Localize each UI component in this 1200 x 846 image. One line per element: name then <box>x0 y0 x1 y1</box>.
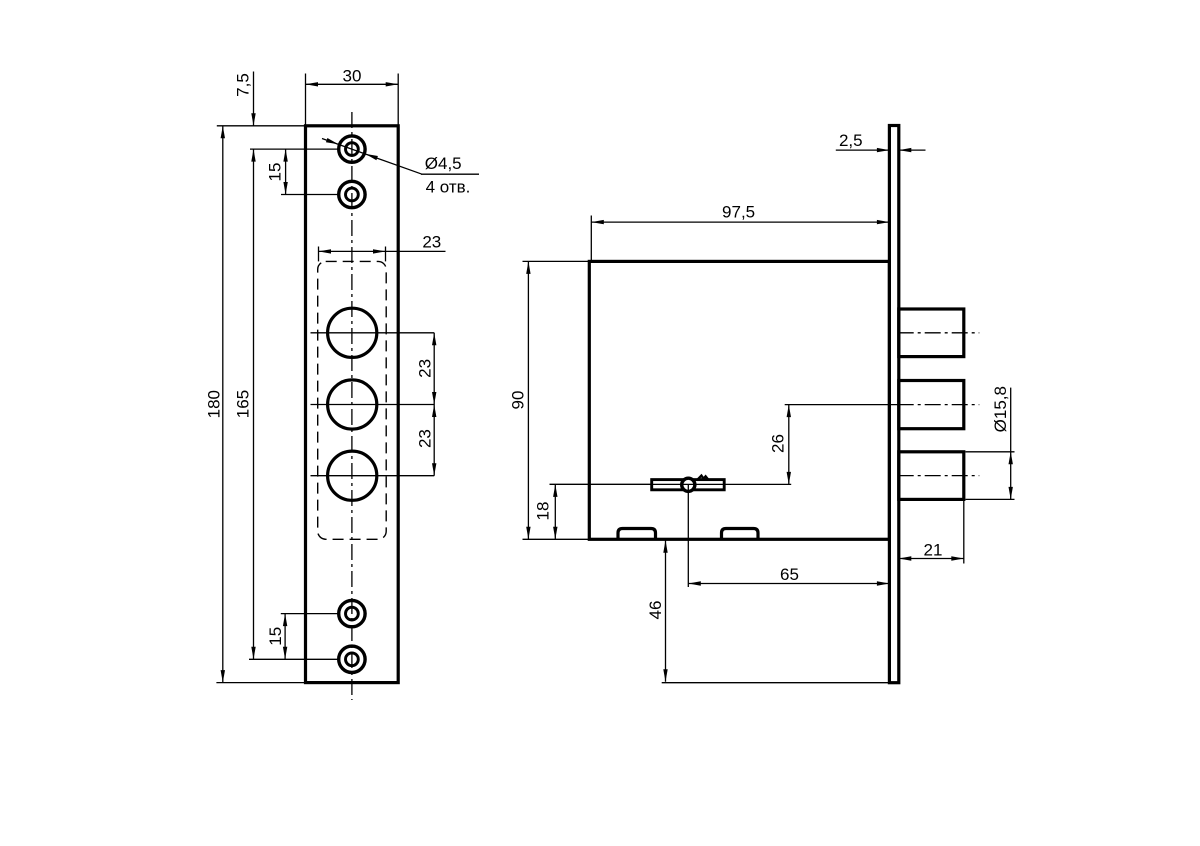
svg-text:90: 90 <box>509 391 528 410</box>
dimension 21 extension line <box>963 499 965 563</box>
dimension 21 (bolt throw) <box>899 541 964 561</box>
faceplate vertical centerline <box>351 112 353 700</box>
bolt hole B3 Ø15,8 <box>328 451 377 500</box>
svg-text:2,5: 2,5 <box>839 131 863 150</box>
dimension 46 extension line <box>662 682 890 684</box>
bolt hole B2 Ø15,8 <box>328 380 377 429</box>
dimension 26 (bolt axis to key axis) <box>768 405 791 485</box>
svg-text:30: 30 <box>343 66 362 85</box>
leader line for hole callout <box>322 138 479 174</box>
dimension 18 extension line <box>550 483 653 485</box>
dimension 180 <box>204 126 225 683</box>
bottom notch 2 <box>722 529 759 540</box>
svg-text:23: 23 <box>422 232 441 251</box>
key cylinder axis horizontal line <box>550 483 792 485</box>
dimension 18 (key axis to bottom) <box>534 484 558 539</box>
svg-text:165: 165 <box>234 390 253 418</box>
dimension 30 extension lines <box>306 74 399 126</box>
key cylinder profile <box>652 476 725 492</box>
faceplate front view outline <box>306 126 399 683</box>
deadbolt 3 side view <box>899 452 964 500</box>
dimension 90 extension lines <box>523 261 590 539</box>
dimension 15 (top screw holes) <box>265 149 287 194</box>
svg-text:97,5: 97,5 <box>722 202 755 221</box>
svg-text:Ø4,5: Ø4,5 <box>425 154 462 173</box>
bolt hole B1 Ø15,8 <box>328 308 377 357</box>
dimension Ø15,8 extension lines <box>966 452 1015 500</box>
svg-text:7,5: 7,5 <box>233 73 252 97</box>
svg-text:26: 26 <box>768 434 787 453</box>
dimension 46 (key axis to plate end) <box>646 540 668 682</box>
screw hole extension lines <box>249 149 338 659</box>
screw hole H2 Ø4,5 countersunk <box>339 181 365 207</box>
svg-text:46: 46 <box>646 601 665 620</box>
dimension 65 (backset) <box>688 565 889 586</box>
svg-text:15: 15 <box>265 163 284 182</box>
svg-text:180: 180 <box>204 390 223 418</box>
svg-text:15: 15 <box>266 627 285 646</box>
screw hole H1 Ø4,5 countersunk <box>339 136 365 162</box>
deadbolt centerlines <box>898 333 980 476</box>
label Ø4,5 4 otv. <box>425 154 471 196</box>
svg-text:18: 18 <box>534 502 553 521</box>
dimension Ø15,8 (deadbolt diameter) <box>991 386 1013 499</box>
svg-text:65: 65 <box>780 565 799 584</box>
deadbolt 1 side view <box>899 309 964 357</box>
dimension 15 (bottom screw holes) <box>266 614 287 660</box>
svg-text:21: 21 <box>924 541 943 560</box>
screw hole H4 Ø4,5 countersunk <box>339 646 365 672</box>
svg-text:Ø15,8: Ø15,8 <box>991 386 1010 432</box>
dimension 90 (body height) <box>509 261 531 539</box>
screw hole H3 Ø4,5 countersunk <box>339 600 365 626</box>
bottom notch 1 <box>618 529 656 540</box>
dimension 97,5 (body depth) <box>591 202 889 224</box>
dimension 165 <box>234 149 256 659</box>
hidden lock body outline (dashed) <box>318 261 387 539</box>
lock body side view outline <box>589 261 889 539</box>
dimension chain 23/23 (bolt hole spacing) <box>416 333 437 476</box>
key cylinder vertical axis <box>687 484 689 587</box>
dimension 30 <box>306 66 399 86</box>
dimension 23 (body width) <box>319 232 446 253</box>
svg-text:23: 23 <box>416 359 435 378</box>
svg-text:4 отв.: 4 отв. <box>426 178 471 197</box>
dimension 97,5 extension line <box>590 216 592 262</box>
svg-text:23: 23 <box>416 429 435 448</box>
dimension 23 (body width) extension lines <box>319 247 386 262</box>
dimension 2,5 (faceplate thickness) <box>836 131 926 153</box>
deadbolt 2 side view <box>899 381 964 429</box>
bolt hole center axes (horizontal) <box>311 333 435 476</box>
dimension 180 extension lines <box>216 126 305 683</box>
dimension 7,5 <box>233 72 255 126</box>
dimension 26 extension line <box>785 404 898 406</box>
faceplate side view outline <box>889 126 898 683</box>
